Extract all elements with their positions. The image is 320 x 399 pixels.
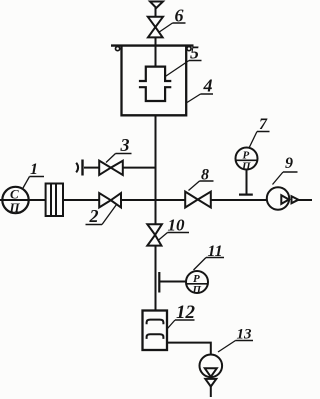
vessel 4 lid <box>111 44 194 46</box>
clamp right <box>187 47 191 51</box>
vent triangle (atmosphere) top <box>150 2 163 9</box>
label 7 <box>249 116 270 148</box>
svg-text:1: 1 <box>30 161 38 178</box>
wire line 3 <box>84 167 99 169</box>
valve 3 <box>99 161 123 175</box>
svg-text:5: 5 <box>190 43 199 63</box>
svg-text:7: 7 <box>259 116 268 133</box>
bell element 5 upper cap <box>139 67 171 81</box>
valve 8 <box>185 192 211 208</box>
label 5 <box>165 43 202 78</box>
svg-text:4: 4 <box>203 76 213 96</box>
svg-text:П: П <box>192 284 202 296</box>
label 13 <box>218 327 253 353</box>
pump 13 <box>200 355 223 387</box>
impulse tee bar for gauge 7 <box>239 194 253 196</box>
label 4 <box>187 76 213 103</box>
wire separator outlet to pump 13 <box>167 343 211 355</box>
bell element 5 lower cup <box>139 87 171 101</box>
label 3 <box>106 135 132 163</box>
label 8 <box>189 167 214 191</box>
pump 9 <box>267 187 299 209</box>
label 12 <box>168 302 196 329</box>
wire gauge 11 branch <box>159 281 186 283</box>
label 9 <box>273 155 298 185</box>
svg-text:2: 2 <box>89 206 99 226</box>
label 10 <box>158 216 189 241</box>
label 2 <box>86 205 117 227</box>
svg-text:3: 3 <box>120 135 130 155</box>
plug (capped end) on line 3 <box>76 160 82 176</box>
label 1 <box>23 161 44 188</box>
clamp left <box>116 47 120 51</box>
svg-text:9: 9 <box>285 155 293 172</box>
wire main vertical line x=155.5 <box>155 8 157 311</box>
valve 6 <box>148 17 163 38</box>
instrument 1 circle С/П <box>2 187 28 216</box>
gauge 11 circle Р/П <box>186 271 208 296</box>
label 11 <box>194 243 225 270</box>
label 6 <box>159 6 186 33</box>
wire main horizontal line y=200 <box>0 199 312 201</box>
valve 10 <box>147 224 162 245</box>
wire pump 13 outlet <box>210 387 212 398</box>
valve 2 <box>99 193 121 207</box>
svg-text:П: П <box>241 161 251 173</box>
wire gauge 7 stem <box>246 170 248 195</box>
svg-text:10: 10 <box>168 216 186 235</box>
svg-text:П: П <box>9 200 21 215</box>
impulse tee bar for gauge 11 <box>158 272 160 293</box>
vessel 4 body <box>122 46 187 115</box>
gauge 7 circle Р/П <box>236 148 258 173</box>
filter 2 (striped block) <box>46 184 63 217</box>
separator 12 <box>143 311 168 351</box>
